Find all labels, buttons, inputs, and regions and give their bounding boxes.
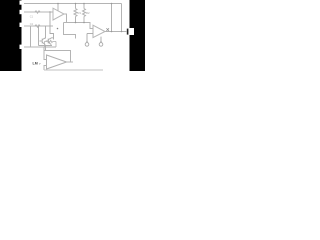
wire: right feedback drop to output node	[121, 4, 123, 32]
cluster bottom rail	[39, 45, 53, 47]
arrowhead I2	[100, 41, 102, 43]
svg-text:R2: R2	[86, 11, 90, 15]
terminal pad P5 (right output, notch in right bar)	[130, 28, 135, 35]
svg-text:C2: C2	[30, 22, 34, 26]
junction dot R2 bottom	[83, 22, 85, 24]
svg-text:C1: C1	[30, 14, 34, 18]
svg-text:R1: R1	[78, 11, 82, 15]
wire: V+ drop to op-amp U1 top	[57, 4, 59, 11]
wire: top supply rail	[24, 3, 122, 5]
feedback loop with component Z3 above pad P4 wire	[45, 40, 57, 47]
bottom faint rail	[44, 69, 103, 71]
component Z1 (series element on input A)	[35, 11, 40, 13]
op-amp U3 (power amp, bottom)	[47, 55, 67, 69]
junction dot output node	[111, 31, 113, 33]
wire drop right from U1 input node	[50, 12, 54, 40]
junction dot R1 bottom	[75, 22, 77, 24]
junction dot R2 top	[83, 3, 85, 5]
op-amp U1	[53, 8, 64, 20]
wire: mid rail left end, loop down	[64, 22, 67, 24]
junction dot top rail / U1	[57, 3, 59, 5]
wire: input A from pad P2	[24, 11, 53, 13]
component Z2 (series element on input B)	[35, 25, 40, 27]
terminal pad P1 (top left)	[20, 1, 26, 5]
output terminal tick	[127, 29, 129, 35]
junction x-mark at U2 output	[106, 28, 109, 31]
wire: input B from pad P3	[24, 25, 53, 27]
terminal pad P2	[20, 10, 26, 14]
wire: U3 input from feedback node	[44, 47, 73, 70]
wire: pad P4 line	[24, 46, 56, 48]
wire: U3 output and feedback up	[67, 61, 74, 63]
current source arrow I1 under U2	[85, 34, 93, 47]
component Z3 (small zigzag)	[48, 40, 53, 42]
op-amp U2	[93, 25, 105, 37]
junction dot R1 top	[75, 3, 77, 5]
terminal pad P3	[20, 23, 26, 27]
transistor Q1 base bar	[41, 39, 43, 44]
transistor Q2 base bar	[47, 39, 49, 44]
svg-text:LM: LM	[33, 62, 38, 66]
wire: op-amp U1 output to mid rail	[64, 14, 93, 29]
tail down	[45, 46, 47, 52]
wire drop center	[45, 26, 47, 39]
resistor R2 (vertical, from top rail)	[83, 4, 86, 23]
pin label dot under U1	[57, 28, 59, 30]
background	[0, 0, 145, 71]
terminal pad P4	[20, 45, 26, 49]
left black panel	[0, 0, 22, 71]
wire: second vertical drop	[111, 4, 113, 32]
right black panel	[130, 0, 146, 71]
current source arrow I2 under U2	[99, 37, 103, 47]
arrowhead I1	[86, 41, 88, 43]
resistor R1 (vertical, from top rail)	[74, 4, 77, 23]
junction dot U1 minus input	[49, 11, 51, 13]
junction dot vertical 111 top	[111, 3, 113, 5]
wire: U3 plus input from bottom rail	[44, 66, 47, 71]
wire: op-amp U2 output to right pad	[105, 31, 127, 33]
wire: vertical from input B rail down to pad P4 rail	[30, 26, 32, 47]
transistor cluster Q1/Q2 (differential pair)	[39, 12, 54, 51]
wire drop left	[38, 26, 40, 46]
